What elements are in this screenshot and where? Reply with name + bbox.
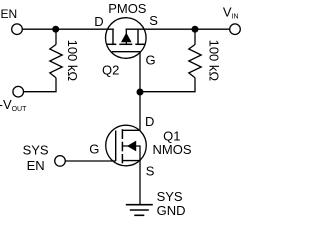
svg-text:NMOS: NMOS <box>153 142 192 157</box>
transistor Q1 NMOS channel dash bottom <box>121 154 123 163</box>
svg-text:GND: GND <box>157 203 186 218</box>
svg-text:SYS: SYS <box>157 189 183 204</box>
svg-text:-VOUT: -VOUT <box>0 97 27 113</box>
ground SYS GND symbol <box>126 205 153 216</box>
svg-text:SYS: SYS <box>23 142 49 157</box>
transistor Q1 NMOS gate bar <box>115 131 117 162</box>
transistor Q1 NMOS source contact bar <box>122 160 140 162</box>
terminal SYS EN <box>55 156 66 167</box>
svg-text:PMOS: PMOS <box>108 1 147 16</box>
svg-text:VIN: VIN <box>223 4 239 20</box>
resistor R2 100k right <box>189 45 201 78</box>
transistor Q1 NMOS channel dash middle <box>121 142 123 152</box>
svg-text:D: D <box>94 14 103 29</box>
terminal EN <box>12 24 23 35</box>
wire right resistor top lead <box>194 29 196 44</box>
svg-text:Q2: Q2 <box>102 63 119 78</box>
transistor Q2 PMOS left contact bar (drain) <box>112 29 114 44</box>
wire right resistor bottom lead to gate node <box>140 78 195 92</box>
node junction dot left resistor top <box>52 26 59 33</box>
resistor R1 100k left <box>50 45 62 78</box>
svg-text:S: S <box>149 13 158 28</box>
svg-text:100 kΩ: 100 kΩ <box>207 40 222 82</box>
transistor Q1 NMOS channel dash top <box>121 129 123 139</box>
transistor Q2 PMOS channel dash middle <box>119 43 132 45</box>
node junction dot right resistor top <box>192 26 199 33</box>
wire left resistor top lead <box>55 29 57 44</box>
wire PMOS gate down through node to NMOS drain bar <box>139 52 141 131</box>
svg-text:D: D <box>145 114 154 129</box>
transistor Q1 NMOS body circle <box>106 125 147 166</box>
transistor Q2 PMOS gate plate <box>112 51 140 53</box>
wire SYS EN to NMOS gate <box>65 160 115 162</box>
wire NMOS bulk stem through source bar down to ground <box>139 145 141 204</box>
node junction dot PMOS gate <box>137 89 144 96</box>
wire EN to PMOS drain bar <box>22 28 113 30</box>
svg-text:S: S <box>146 164 155 179</box>
svg-text:G: G <box>146 53 156 68</box>
transistor Q2 PMOS body circle <box>106 18 147 59</box>
svg-text:EN: EN <box>27 158 45 173</box>
transistor Q1 NMOS bulk arrow (points left) <box>127 141 136 152</box>
wire PMOS bulk stem to VIN (source rail) <box>126 28 230 30</box>
svg-text:100 kΩ: 100 kΩ <box>65 40 80 82</box>
terminal VIN <box>230 24 241 35</box>
transistor Q1 NMOS drain contact bar <box>122 129 140 131</box>
transistor Q2 PMOS channel dash right <box>135 43 145 45</box>
transistor Q2 PMOS right contact bar (source) <box>137 29 139 44</box>
transistor Q2 PMOS bulk arrow (points up) <box>121 33 132 43</box>
transistor Q1 NMOS bulk stem <box>122 145 140 147</box>
transistor Q2 PMOS channel dash left <box>107 43 116 45</box>
svg-text:EN: EN <box>1 7 18 21</box>
transistor Q2 PMOS bulk stem <box>125 29 127 44</box>
wire left resistor bottom lead to -VOUT <box>24 78 56 92</box>
terminal -VOUT <box>13 86 24 97</box>
svg-text:G: G <box>89 142 99 157</box>
